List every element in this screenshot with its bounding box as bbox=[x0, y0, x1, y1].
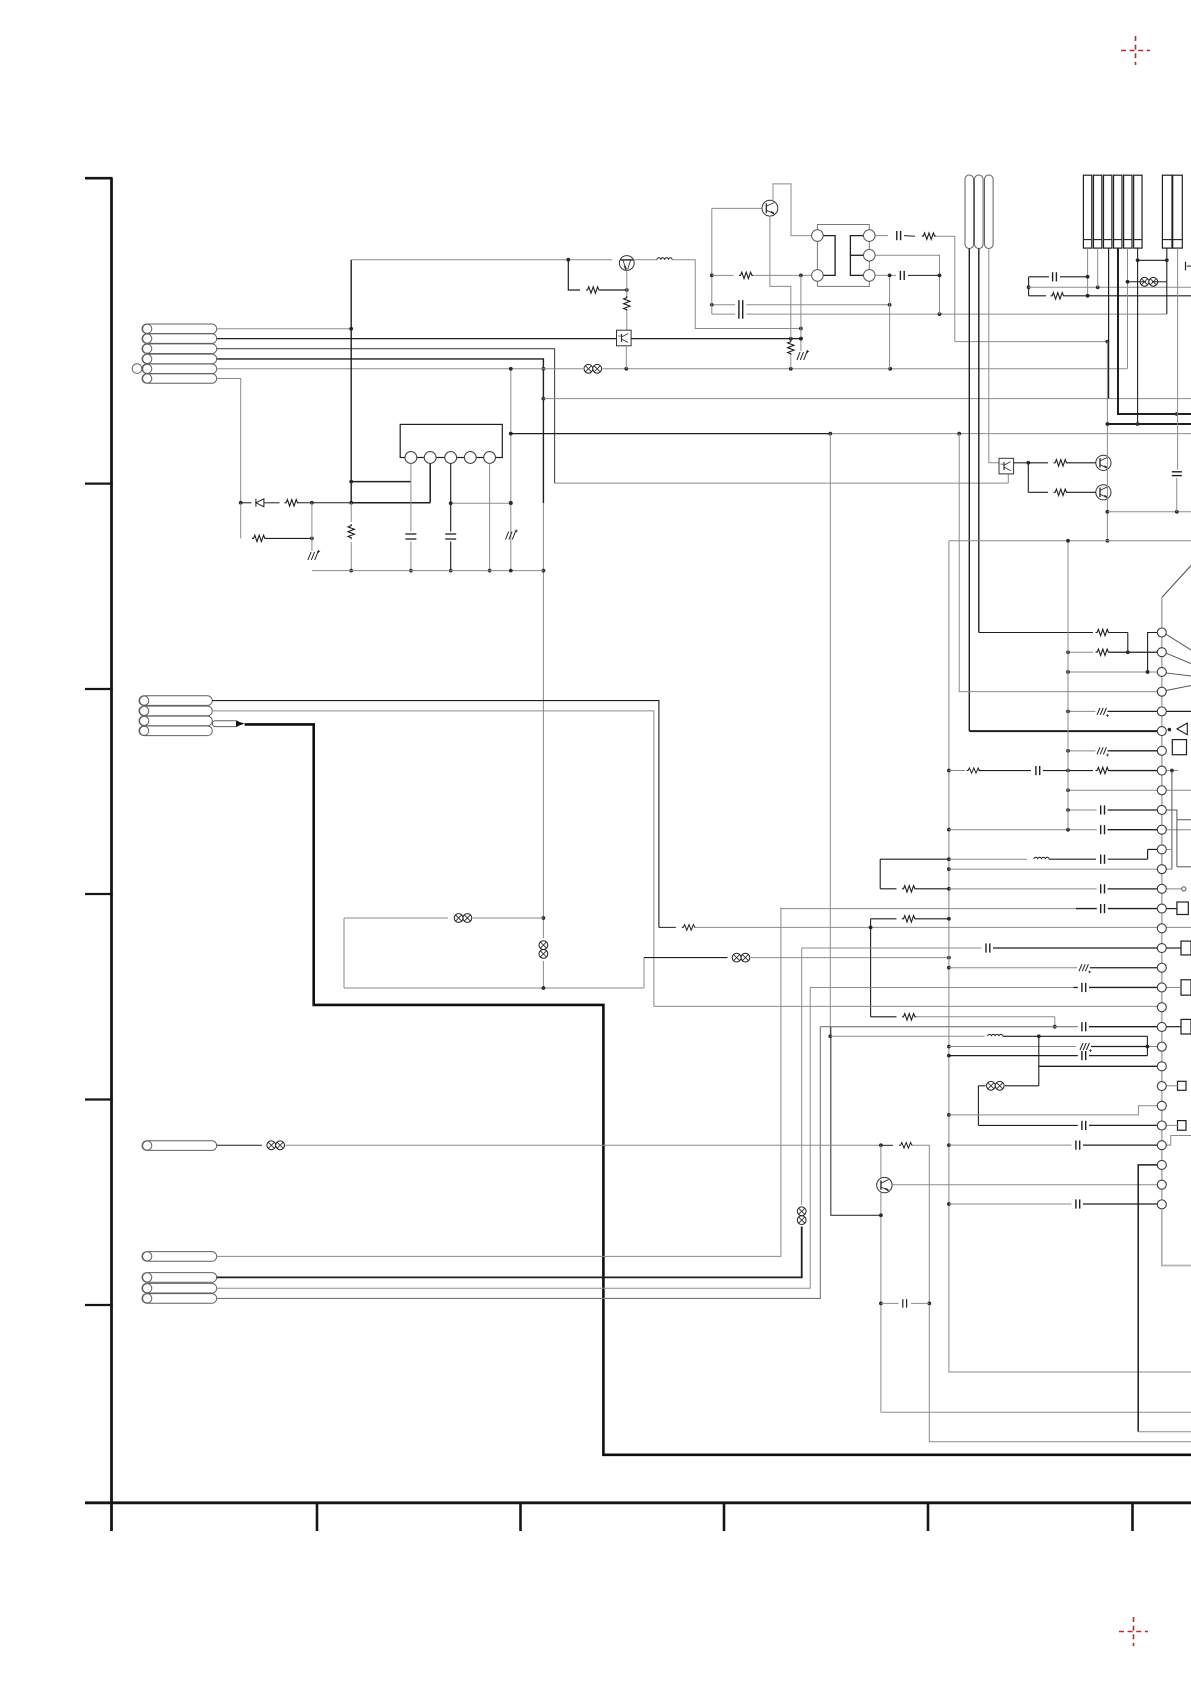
wire CN5-3 row to x=820.3 up bbox=[217, 1027, 821, 1299]
J1 bar 4 bbox=[1114, 175, 1122, 248]
resistor R2 bbox=[264, 502, 279, 504]
border left tick 4 bbox=[85, 1098, 113, 1100]
IC2 pin4 fan diagonal bbox=[1166, 686, 1191, 691]
border bottom rule bbox=[85, 1501, 1191, 1504]
J1 bar 3 bbox=[1104, 175, 1112, 248]
IC2 pin circle 15 bbox=[1157, 904, 1166, 913]
resistor R5 vertical bbox=[624, 296, 630, 311]
chassis ground G3 bbox=[506, 532, 509, 540]
wire Q1 collector to inductor bbox=[634, 259, 657, 261]
IC1 body bbox=[400, 424, 502, 457]
wire CN1-6 down to diode row bbox=[217, 379, 241, 503]
IC1 pin2 lead (dark elbow) bbox=[429, 463, 431, 502]
row y=433.6 gray segment bbox=[830, 433, 1191, 435]
IC2 pin circle 25 bbox=[1157, 1101, 1166, 1110]
bracket x=880.2 rows 859.2/888.8 bbox=[879, 859, 881, 889]
collector rail x=1107.4 bbox=[1106, 342, 1108, 541]
IC2 pin circle 2 bbox=[1157, 648, 1166, 657]
IC2 pin5 row with chassis G4 bbox=[1068, 710, 1096, 712]
IC2 pin9 row bbox=[1068, 789, 1158, 791]
CN6-1 wire down (dark) to pin row 5 bbox=[968, 249, 970, 732]
J1-2 lead bbox=[1097, 248, 1099, 287]
diode D1 bbox=[241, 502, 252, 504]
IC2 pin3 row bbox=[1068, 671, 1158, 673]
IC2 pin circle 4 bbox=[1157, 687, 1166, 696]
border bottom tick 2 bbox=[519, 1503, 522, 1531]
bead loop right side x=644 bbox=[643, 958, 645, 988]
row y=1055.6 C20 bbox=[949, 1055, 1078, 1057]
IC2 pin circle 11 bbox=[1157, 825, 1166, 834]
J2 bar 2 bbox=[1173, 175, 1183, 248]
connector CN2 pin 2 bbox=[139, 706, 212, 716]
border left tick 3 bbox=[85, 893, 113, 895]
vertical x=510.8 bbox=[510, 369, 512, 571]
row y=1412.3 to edge bbox=[881, 1411, 1191, 1413]
IC2 pin7 row with chassis G5 bbox=[1068, 750, 1096, 752]
IC2 pin13 right ext bbox=[1166, 868, 1172, 870]
connector CN5 pin 3 bbox=[142, 1294, 217, 1304]
IC2 pin10 row C12 bbox=[1068, 809, 1097, 811]
IC2 pin22 row chassis G7 bbox=[949, 1046, 1076, 1048]
IC2 pin circle 21 bbox=[1157, 1022, 1166, 1031]
J1-4 lead thick to row y=414 bbox=[1118, 248, 1191, 414]
step down x=1054.8 to row 1026.7 bbox=[1054, 1017, 1056, 1027]
IC2 pin23 row from x=1038.8 bbox=[1038, 1036, 1040, 1086]
connector CN5 pin 1 bbox=[142, 1273, 217, 1283]
transistor Q4 bbox=[1096, 485, 1111, 500]
vertical x=1171.9 (pin8 to pin13 row) bbox=[1171, 771, 1173, 870]
bracket x=1028.6 bbox=[1028, 277, 1030, 296]
border left rule bbox=[110, 178, 113, 1531]
IC2 pin14 row C15 bbox=[949, 888, 1097, 890]
gnd branch x=800.9 bbox=[800, 275, 802, 351]
row y=927.4 from x=658.9 with R13 bbox=[659, 926, 676, 928]
border left tick 2 bbox=[85, 688, 113, 690]
wire row y=502.8 dark to IC pin2 corner bbox=[351, 502, 430, 504]
border left tick 1 bbox=[85, 483, 113, 485]
IC1 pin 4 bbox=[464, 452, 476, 464]
filter FL1 terminals bbox=[812, 230, 824, 242]
IC2 pin25 row step x=1138.4 bbox=[949, 1106, 1158, 1115]
connector CN3 pin 1 bbox=[142, 1141, 217, 1151]
IC1 pin 2 bbox=[424, 452, 436, 464]
IC2 pin circle 16 bbox=[1157, 924, 1166, 933]
IC2 pin circle 5 bbox=[1157, 707, 1166, 716]
connector CN5 pin 2 bbox=[142, 1283, 217, 1293]
vertical trunk x=351.2 bbox=[350, 260, 352, 503]
border bottom tick 5 bbox=[1131, 1503, 1134, 1531]
connector CN4 pin 1 bbox=[142, 1252, 217, 1262]
IC2 pin24 right box bbox=[1178, 1081, 1187, 1090]
IC2 pin circle 13 bbox=[1157, 865, 1166, 874]
IC2 pin circle 23 bbox=[1157, 1062, 1166, 1071]
connector CN1 pin 1 bbox=[142, 324, 217, 334]
registration mark bottom-right bbox=[1119, 1617, 1148, 1646]
wire to corner x=954.8 down bbox=[936, 236, 955, 341]
edge capacitor mark bbox=[1185, 262, 1187, 271]
connector CN6 pin 3 bbox=[985, 175, 994, 249]
IC2 pin19 right box bbox=[1181, 980, 1191, 995]
wire CN4-1 row to x=780.9 up bbox=[217, 907, 781, 1256]
resistor R6 vertical to bus bbox=[788, 340, 794, 355]
wire CN3 row with bead FB6 bbox=[217, 1144, 262, 1146]
wire CN1-1 to node A bbox=[217, 328, 352, 330]
row y=957.6 with bead FB4 bbox=[644, 957, 728, 959]
border left tick 5 bbox=[85, 1304, 113, 1306]
wire row y=314.1 long bbox=[712, 313, 735, 315]
wire CN1-5 main bus y=368.8 bbox=[217, 368, 583, 370]
J2-2 lead down to cap C9 bbox=[1177, 248, 1179, 469]
connector CN1 extra ring bbox=[132, 364, 142, 374]
connector CN2 pin 4 bbox=[139, 726, 212, 736]
wire Q5 emitter row to pin28 bbox=[892, 1184, 1157, 1186]
border bottom tick 3 bbox=[723, 1503, 726, 1531]
connector CN1 pin 6 bbox=[142, 374, 217, 384]
bead loop left side bbox=[343, 918, 345, 988]
IC2 pin circle 14 bbox=[1157, 884, 1166, 893]
border top tick bbox=[85, 177, 113, 180]
row y=424 thick to edge bbox=[1107, 423, 1191, 425]
ferrite bead FB on x=543.4 bbox=[539, 941, 548, 950]
row y=1016.8 with R15 bbox=[871, 1016, 897, 1018]
wire Q2 base bbox=[712, 207, 762, 209]
IC2 pin circle 17 bbox=[1157, 944, 1166, 953]
IC2 pin6 row thick from CN6-1 bbox=[969, 730, 1157, 732]
vertical x=830.8 dark to Q5 base row bbox=[831, 1027, 881, 1216]
wire Q2 emitter down and over bbox=[770, 216, 791, 339]
IC2 pin7 box bbox=[1172, 740, 1186, 755]
IC2 pin circle 28 bbox=[1157, 1160, 1166, 1169]
IC2 pin6 buffer triangle bbox=[1168, 728, 1172, 732]
IC2 pin26 row C21 bbox=[978, 1124, 1077, 1126]
IC2 pin5 row right ext bbox=[1166, 710, 1191, 712]
transistor Q1 bbox=[619, 256, 634, 271]
vertical x=1147.4 bbox=[1146, 1036, 1148, 1055]
IC2 pin12 row inductor L2 cap C14 bbox=[949, 858, 1027, 860]
IC2 pin12 right ext bbox=[1166, 848, 1172, 850]
bead FB7 row bbox=[978, 1085, 985, 1087]
IC2 pin2 row resistor R21 bbox=[1068, 651, 1093, 653]
IC1 pin1 lead down with C6 bbox=[410, 463, 412, 531]
IC2 pin circle 12 bbox=[1157, 845, 1166, 854]
wire CN1-6 branch to R3 row bbox=[240, 503, 242, 539]
corner x=929.3 down bbox=[912, 1145, 1191, 1441]
row y=260.3 bbox=[1138, 259, 1167, 261]
vertical x=711.8 Q2 base feed bbox=[711, 208, 713, 314]
IC2 pin26 right box bbox=[1178, 1121, 1187, 1131]
IC2 pin9 right ext bbox=[1166, 789, 1191, 791]
border bottom tick 1 bbox=[316, 1503, 319, 1531]
wire Q1 emitter down bbox=[626, 270, 628, 290]
transistor Q5 bbox=[877, 1177, 892, 1192]
IC2 pin28 row thick from x=1138.2 bbox=[1138, 1165, 1157, 1432]
row y=540.8 bbox=[949, 540, 1191, 542]
wire FL1 bottom-right row with C5 bbox=[875, 274, 896, 276]
J2 bar 1 bbox=[1162, 175, 1172, 248]
resistor R9 bbox=[1028, 462, 1048, 464]
IC2 pin16 right ext bbox=[1166, 926, 1191, 928]
CN6-3 wire down to opto U3 bbox=[989, 249, 999, 463]
capacitor C3 bbox=[738, 310, 740, 319]
IC2 pin3 fan diagonal bbox=[1166, 673, 1191, 676]
row y=888.8 with R16 bbox=[880, 888, 896, 890]
capacitor C10 row y=1303.4 bbox=[881, 1302, 899, 1304]
connector CN1 pin 2 bbox=[142, 334, 217, 344]
resistor R4 vertical below node bbox=[350, 503, 352, 522]
row y=918.8 with R14 bbox=[871, 918, 897, 920]
IC2 pin4 row from x=959.2 bbox=[959, 434, 1157, 692]
IC2 pin14 testpoint bbox=[1166, 888, 1181, 890]
IC1 pin 1 bbox=[405, 452, 417, 464]
connector CN2 pin 1 bbox=[139, 696, 212, 706]
wire L1 corner down x=695.2 to row y=328.5 bbox=[672, 260, 801, 329]
IC2 pin circle 19 bbox=[1157, 983, 1166, 992]
wire FL1 top-right row bbox=[875, 235, 888, 237]
J1-6 lead bbox=[1137, 248, 1139, 424]
IC2 pin circle 1 bbox=[1157, 628, 1166, 637]
wire row y=304.8 bbox=[712, 304, 735, 306]
capacitor C5 bbox=[899, 271, 901, 280]
IC1 pin 3 bbox=[445, 452, 457, 464]
IC2 body edge diagonal bbox=[1162, 566, 1191, 598]
optocoupler U3 bbox=[999, 458, 1014, 474]
IC2 pin circle 20 bbox=[1157, 1003, 1166, 1012]
IC2 pin circle 8 bbox=[1157, 766, 1166, 775]
IC2 pin13 row bbox=[949, 868, 1158, 870]
IC2 pin circle 24 bbox=[1157, 1082, 1166, 1091]
wire CN5-2 row to x=810.2 up bbox=[217, 987, 811, 1288]
wire CN2-2 down x=653.9 to row 1006.4 bbox=[212, 711, 654, 1007]
IC2 pin8 row R22/C11/R23 bbox=[949, 770, 965, 772]
connector CN6 pin 2 bbox=[975, 175, 984, 249]
IC2 pin circle 3 bbox=[1157, 667, 1166, 676]
vertical x=889.6 to bus bbox=[889, 275, 891, 368]
IC2 pin circle 26 bbox=[1157, 1121, 1166, 1130]
IC2 pin15 right box bbox=[1177, 902, 1188, 915]
ferrite bead FB1 on bus bbox=[584, 364, 593, 373]
IC2 pin circle 22 bbox=[1157, 1042, 1166, 1051]
row y=1431.7 to edge bbox=[1138, 1431, 1191, 1433]
IC2 pin11 right ext through box bbox=[1166, 829, 1191, 831]
ferrite bead FB3 bbox=[454, 914, 463, 923]
branch to IC1 pin1 (dark) bbox=[351, 481, 411, 483]
ferrite bead FB5 on x=801.7 bbox=[797, 1207, 806, 1216]
IC2 pin rail bbox=[1162, 598, 1191, 1266]
IC2 pin1 fan diagonal bbox=[1166, 634, 1191, 650]
J2-1 lead bbox=[1166, 248, 1168, 314]
IC2 pin circle 29 bbox=[1157, 1180, 1166, 1189]
optocoupler U2 bbox=[617, 330, 632, 346]
box open right: bottom edge bbox=[1177, 866, 1191, 868]
wire CN1-3 with corner down at x=554.6 bbox=[217, 349, 555, 483]
wire row y=259.7 to Q1 base bbox=[351, 259, 612, 261]
bead loop top row y=918 bbox=[344, 917, 448, 919]
vertical x=978.4 to pin26 row bbox=[977, 1086, 979, 1126]
IC2 pin circle 30 bbox=[1157, 1200, 1166, 1209]
IC2 pin8 right stub bbox=[1166, 770, 1178, 772]
IC2 pin circle 10 bbox=[1157, 805, 1166, 814]
filter FL1 body bbox=[817, 225, 869, 287]
resistor R10 bbox=[1028, 491, 1048, 493]
J1 bar 6 bbox=[1134, 175, 1142, 248]
IC2 pin27 row C22 bbox=[949, 1144, 1072, 1146]
IC2 pin circle 18 bbox=[1157, 963, 1166, 972]
bead FB2 row bbox=[1140, 277, 1149, 286]
IC2 pin17 right box bbox=[1181, 941, 1191, 955]
IC2 pin21 right box bbox=[1181, 1019, 1191, 1034]
IC2 pin1 elbow to row3 bbox=[1148, 633, 1158, 672]
IC2 pin30 row C23 bbox=[949, 1203, 1072, 1205]
wire CN5-1 row thick to x=801.7 up bbox=[217, 1227, 802, 1278]
J1-3 lead long bbox=[1108, 248, 1110, 399]
wire opto U2 out to R/gnd nodes bbox=[631, 338, 801, 340]
chassis ground G2 bbox=[797, 352, 800, 360]
bracket x=870.6 bbox=[870, 919, 872, 1017]
transistor Q3 bbox=[1096, 455, 1111, 470]
capacitor C9 vertical bbox=[1172, 471, 1182, 473]
registration mark top-right bbox=[1121, 36, 1150, 65]
connector CN1 pin 3 bbox=[142, 344, 217, 354]
wire CN1-2 bus (dark) to opto U2 bbox=[217, 338, 617, 340]
resistor R12 bbox=[881, 1144, 893, 1146]
IC2 pin15 row C16 from x=780.9 bbox=[781, 908, 1076, 910]
transistor Q5 base rail bbox=[880, 1145, 882, 1412]
IC2 pin27 right step bbox=[1166, 1136, 1191, 1146]
IC2 pin20 row long from CN2-2 bbox=[654, 1005, 1158, 1007]
wire CN2-1 down x=658.9 bbox=[212, 701, 659, 928]
IC2 pin circle 6 bbox=[1157, 727, 1166, 736]
J1 bar 1 bbox=[1083, 175, 1091, 248]
connector CN6 pin 1 bbox=[965, 175, 974, 249]
elbow to resistor R1 row bbox=[568, 260, 580, 290]
wire row y=503.3 gray right part bbox=[451, 502, 511, 504]
wire U2 to bus bbox=[625, 346, 627, 369]
wire row y=275.4 with resistor R7 bbox=[712, 274, 734, 276]
row y=287.3 bbox=[1029, 286, 1191, 288]
wire Q2 collector loop to filter bbox=[773, 184, 811, 236]
vertical x=830.3 (row433 to inductor row) bbox=[829, 434, 831, 1037]
resistor R1 bbox=[586, 287, 600, 293]
connector CN1 pin 5 bbox=[142, 364, 217, 374]
connector CN2 pin 3 bbox=[139, 716, 212, 726]
J1 bar 2 bbox=[1093, 175, 1101, 248]
IC1 pin 5 bbox=[484, 452, 496, 464]
wire CN1-4 (dark) corner down x=543.4 bbox=[217, 359, 544, 503]
capacitor C4 bbox=[896, 231, 898, 240]
row y=483.1 to opto U3 bbox=[555, 482, 1009, 484]
row y=1036.3 inductor L3 bbox=[830, 1035, 984, 1037]
row y=295.8 with R11 bbox=[1029, 295, 1046, 297]
bus x=948.9 vertical bbox=[949, 541, 1191, 1372]
row y=433.6 dark segment bbox=[511, 433, 831, 435]
box open right: left edge bbox=[1176, 820, 1178, 867]
IC2 pin circle 9 bbox=[1157, 786, 1166, 795]
IC2 pin11 row C13 bbox=[949, 829, 1097, 831]
wire x=543.4 lower segment to bead rect bbox=[542, 503, 544, 938]
inductor L1 bbox=[657, 258, 672, 260]
J1-1 lead to C8 row bbox=[1087, 248, 1089, 296]
IC2 pin10 right step to box top bbox=[1166, 810, 1191, 820]
connector CN2 mating plug bbox=[212, 721, 239, 727]
wire FL1 mid-right corner x=939.5 bbox=[875, 255, 939, 314]
resistor R8 bbox=[922, 233, 936, 239]
U3 output split bbox=[1014, 462, 1029, 464]
transistor Q2 bbox=[762, 200, 778, 216]
J1-5 lead to bus bbox=[1127, 248, 1129, 369]
IC2 pin21 row C19 from x=820.3 bbox=[820, 1026, 1078, 1028]
capacitor C2 bbox=[738, 300, 740, 309]
vertical bus x=1068 bbox=[1067, 541, 1069, 830]
IC1 pin5 lead bbox=[489, 463, 491, 570]
IC2 pin18 row chassis G6 bbox=[949, 967, 1077, 969]
filter FL1 inner bars bbox=[823, 236, 836, 276]
IC2 pin19 row C18 from x=810.2 bbox=[810, 986, 1073, 988]
IC2 pin circle 7 bbox=[1157, 746, 1166, 755]
J1 bar 5 bbox=[1124, 175, 1132, 248]
row y=398.6 full width bbox=[543, 398, 1191, 400]
IC1 pin3 lead with C7 bbox=[450, 463, 452, 531]
connector CN1 pin 4 bbox=[142, 354, 217, 364]
row y=341.6 bbox=[955, 341, 1108, 343]
wire gnd stub x=311.9 bbox=[311, 503, 313, 551]
IC2 pin circle 27 bbox=[1157, 1141, 1166, 1150]
ground rail y=570.6 bbox=[312, 570, 544, 572]
CN6-2 wire down (dark) to pin row 0 bbox=[978, 249, 980, 633]
row y=859.2 start bbox=[880, 858, 949, 860]
resistor R3 bbox=[252, 535, 266, 541]
row y=276.8 with C8 bbox=[1029, 276, 1049, 278]
wire CN2 plug thick trunk bbox=[245, 724, 1191, 1454]
row y=511.8 bbox=[1107, 511, 1191, 513]
bead loop bottom row y=988 bbox=[344, 987, 644, 989]
IC2 pin1 row resistor R20 bbox=[979, 632, 1093, 634]
chassis ground G1 bbox=[308, 552, 311, 560]
IC2 pin17 row C17 from x=801.7 bbox=[802, 947, 982, 949]
IC2 pin2 fan diagonal bbox=[1166, 653, 1191, 663]
border bottom tick 4 bbox=[927, 1503, 930, 1531]
